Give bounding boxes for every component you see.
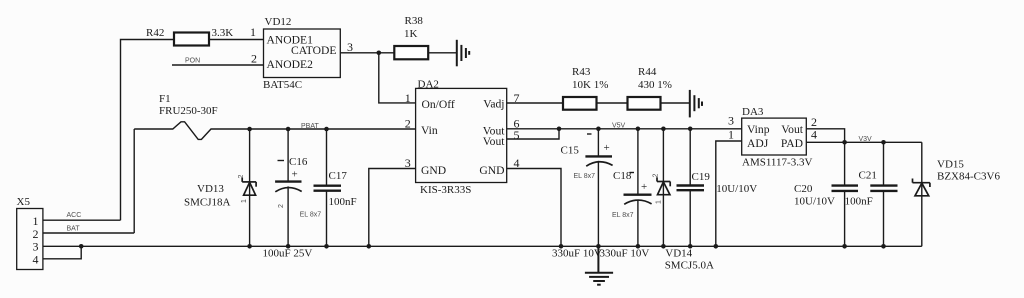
svg-text:C15: C15 (561, 145, 580, 157)
svg-text:1: 1 (241, 199, 248, 203)
svg-text:10K 1%: 10K 1% (572, 79, 608, 91)
wire R43 to R44 (597, 102, 628, 104)
svg-text:3: 3 (347, 40, 353, 54)
wire ACC from X5 pin1 (43, 219, 121, 221)
capacitor C20 10U/10V (832, 142, 859, 246)
diode VD12 BAT54C (263, 16, 340, 91)
node C17 bottom (324, 244, 329, 249)
node C15 top (596, 127, 601, 132)
svg-text:C16: C16 (289, 156, 308, 168)
wire VD14 column (662, 129, 664, 247)
node R38 branch (377, 51, 382, 56)
capacitor C18 330uF 10V (624, 129, 652, 247)
svg-text:100uF 25V: 100uF 25V (263, 248, 313, 260)
node C20 bottom (842, 244, 847, 249)
svg-text:R43: R43 (572, 66, 591, 78)
diode VD14 SMCJ5.0A (657, 177, 670, 194)
resistor R44 (628, 97, 661, 110)
svg-text:+: + (292, 169, 298, 181)
svg-text:BAT54C: BAT54C (263, 79, 302, 91)
svg-text:PAD: PAD (781, 137, 803, 150)
svg-text:10U/10V: 10U/10V (794, 196, 835, 208)
wire DA2 GND pin4 to bottom rail (507, 169, 561, 247)
svg-text:V3V: V3V (859, 136, 873, 143)
svg-text:V5V: V5V (612, 123, 626, 130)
svg-text:FRU250-30F: FRU250-30F (159, 105, 218, 117)
wire DA3 pin4 PAD (806, 141, 844, 143)
svg-text:2: 2 (405, 116, 411, 130)
resistor R43 (563, 97, 597, 110)
node ADJ leg bottom (714, 244, 719, 249)
resistor R42 (174, 33, 209, 46)
svg-text:C18: C18 (613, 170, 632, 182)
node C18 top (636, 127, 641, 132)
svg-text:Vout: Vout (781, 123, 803, 136)
svg-text:Vadj: Vadj (483, 98, 504, 111)
svg-text:EL 8x7: EL 8x7 (574, 173, 596, 180)
node VD14 top (661, 127, 666, 132)
wire V3V rail (845, 141, 922, 143)
node C17 top (324, 127, 329, 132)
svg-text:PON: PON (185, 58, 200, 65)
svg-text:330uF 10V: 330uF 10V (600, 248, 650, 260)
capacitor C19 10U/10V (677, 129, 705, 247)
wire BAT riser (133, 129, 135, 233)
svg-text:GND: GND (421, 164, 446, 177)
capacitor C15 330uF 10V (585, 129, 612, 247)
node C20 top (842, 140, 847, 145)
fuse F1 FRU250-30F (134, 122, 415, 140)
node C16 bottom (286, 244, 291, 249)
svg-text:2: 2 (278, 204, 285, 208)
svg-text:KIS-3R33S: KIS-3R33S (420, 184, 471, 196)
node VD13 bottom (247, 244, 252, 249)
svg-text:1: 1 (250, 25, 256, 39)
svg-text:2: 2 (238, 175, 245, 179)
wire bottom ground rail (43, 245, 922, 247)
svg-text:EL 8x7: EL 8x7 (300, 212, 322, 219)
svg-text:F1: F1 (159, 93, 171, 105)
capacitor C17 100nF (314, 129, 342, 246)
svg-text:On/Off: On/Off (422, 98, 455, 111)
capacitor C21 100nF (870, 142, 897, 246)
node C19 bottom (688, 244, 693, 249)
svg-text:VD12: VD12 (265, 16, 292, 28)
svg-text:R42: R42 (146, 27, 164, 39)
node VD14 bottom (661, 244, 666, 249)
wire X5 pin4 jog to pin3 net (43, 246, 81, 258)
svg-text:SMCJ5.0A: SMCJ5.0A (665, 260, 714, 272)
ground (right-facing) after R44 (690, 90, 702, 118)
node GND leg bottom (367, 244, 372, 249)
node pin5/6 junction (557, 127, 562, 132)
resistor R38 (394, 46, 428, 59)
svg-text:EL 8x7: EL 8x7 (612, 212, 634, 219)
svg-text:2: 2 (653, 174, 660, 178)
wire DA2 GND pin3 to bottom rail (369, 169, 416, 247)
wire DA3 pin2 Vout jog (806, 129, 844, 143)
svg-text:R38: R38 (405, 15, 424, 27)
svg-text:1: 1 (405, 91, 411, 105)
wire branch down to DA2 pin1 (379, 53, 416, 103)
node pin4 leg bottom (559, 244, 564, 249)
svg-text:R44: R44 (638, 66, 657, 78)
diode VD15 BZX84-C3V6 (913, 179, 930, 196)
svg-text:CATODE: CATODE (291, 44, 337, 57)
svg-text:GND: GND (479, 164, 504, 177)
svg-text:AMS1117-3.3V: AMS1117-3.3V (742, 157, 812, 169)
connector X5 (17, 196, 43, 270)
svg-text:10U/10V: 10U/10V (716, 183, 757, 195)
svg-text:Vout: Vout (483, 135, 505, 148)
svg-text:+: + (604, 142, 610, 154)
svg-text:C19: C19 (692, 171, 711, 183)
svg-text:330uF 10V: 330uF 10V (552, 248, 602, 260)
node C21 bottom (881, 244, 886, 249)
svg-text:2: 2 (251, 51, 257, 65)
svg-text:4: 4 (811, 128, 817, 142)
svg-text:PBAT: PBAT (301, 123, 319, 130)
wire R44 to ground (661, 102, 690, 104)
node C18 bottom (636, 244, 641, 249)
svg-text:VD13: VD13 (197, 183, 224, 195)
node C21 top (881, 140, 886, 145)
svg-text:C21: C21 (859, 169, 877, 181)
wire R42 to VD12 pin1 (209, 39, 264, 41)
ground (down) below C15 (585, 246, 613, 284)
node C16 top (286, 127, 291, 132)
svg-text:100nF: 100nF (329, 196, 357, 208)
ground (right-facing) after R38 (457, 40, 469, 67)
svg-text:C20: C20 (794, 183, 813, 195)
svg-text:SMCJ18A: SMCJ18A (184, 197, 231, 209)
wire DA2 pin6 Vout / V5V rail (507, 128, 742, 130)
svg-text:BAT: BAT (67, 225, 81, 232)
svg-text:4: 4 (33, 252, 39, 266)
wire BAT from X5 pin2 (43, 232, 134, 234)
wire DA2 pin5 jog (507, 129, 559, 139)
node VD13 top (247, 127, 252, 132)
svg-text:1: 1 (728, 128, 734, 142)
wire VD13 column (249, 129, 251, 246)
svg-text:C17: C17 (329, 170, 348, 182)
wire PON to VD12 pin2 (172, 64, 264, 66)
svg-text:ANODE2: ANODE2 (267, 58, 314, 71)
svg-text:Vinp: Vinp (747, 123, 770, 136)
svg-text:100nF: 100nF (845, 196, 873, 208)
svg-text:DA2: DA2 (418, 79, 439, 91)
svg-text:VD14: VD14 (665, 248, 692, 260)
svg-text:1: 1 (656, 200, 663, 204)
svg-text:VD15: VD15 (937, 159, 964, 171)
wire ACC riser (121, 40, 175, 221)
svg-text:430 1%: 430 1% (638, 79, 672, 91)
svg-text:+: + (641, 181, 647, 193)
svg-text:ACC: ACC (67, 212, 82, 219)
svg-text:ADJ: ADJ (747, 137, 769, 150)
svg-text:X5: X5 (17, 196, 31, 208)
IC DA3 AMS1117-3.3V (742, 106, 813, 169)
svg-text:3.3K: 3.3K (212, 27, 234, 39)
capacitor C16 100uF 25V (275, 129, 302, 246)
wire DA2 pin7 Vadj (507, 102, 563, 104)
wire VD15 column (921, 142, 923, 246)
diode VD13 SMCJ18A (242, 178, 256, 196)
wire R38 to ground (428, 52, 457, 54)
node C19 top (688, 127, 693, 132)
node pin3/pin4 junction (79, 244, 84, 249)
wire DA3 ADJ to bottom rail (716, 141, 742, 246)
svg-text:DA3: DA3 (742, 106, 764, 118)
IC DA2 KIS-3R33S (416, 79, 507, 197)
svg-text:BZX84-C3V6: BZX84-C3V6 (937, 171, 1000, 183)
svg-text:1K: 1K (404, 28, 418, 40)
svg-text:3: 3 (728, 114, 734, 128)
node C15 bottom (596, 244, 601, 249)
wire VD12 pin3 (340, 52, 394, 54)
svg-text:Vin: Vin (421, 124, 438, 137)
